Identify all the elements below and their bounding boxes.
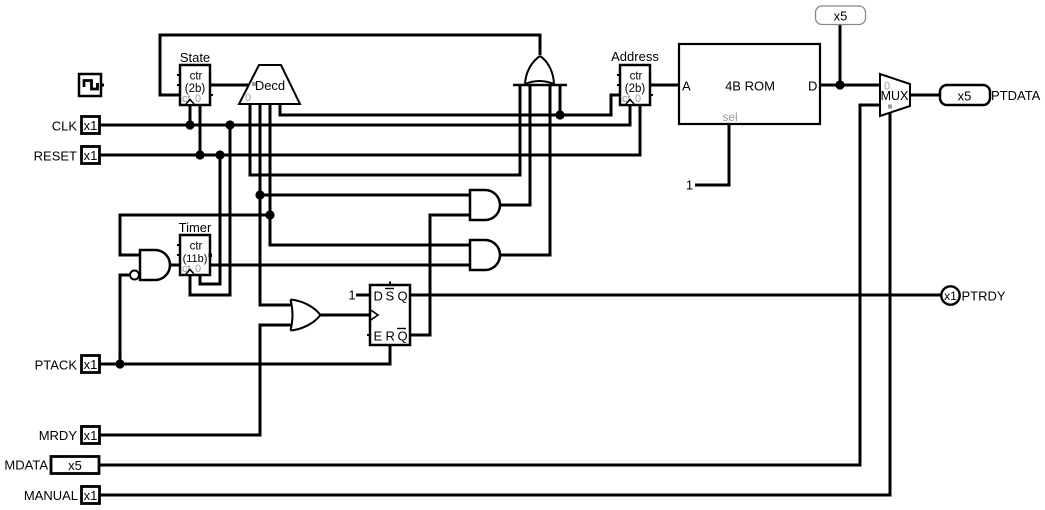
svg-text:0: 0	[195, 93, 201, 105]
svg-text:A: A	[682, 79, 691, 94]
svg-text:Q: Q	[398, 329, 408, 344]
svg-text:ctr: ctr	[190, 71, 203, 83]
svg-text:ctr: ctr	[190, 241, 203, 253]
svg-text:sel: sel	[722, 110, 737, 124]
svg-text:0: 0	[245, 92, 251, 104]
svg-text:x1: x1	[84, 118, 98, 133]
svg-text:State: State	[180, 50, 210, 65]
svg-text:1: 1	[686, 178, 693, 193]
svg-text:Q: Q	[398, 289, 408, 304]
svg-text:MDATA: MDATA	[4, 458, 48, 473]
svg-text:Address: Address	[611, 49, 659, 64]
svg-text:x5: x5	[68, 458, 82, 473]
svg-text:0: 0	[635, 93, 641, 105]
svg-text:RESET: RESET	[34, 149, 77, 164]
svg-text:D: D	[374, 289, 383, 304]
svg-text:0: 0	[195, 263, 201, 275]
svg-text:E: E	[374, 329, 383, 344]
svg-text:x1: x1	[84, 357, 98, 372]
svg-text:ctr: ctr	[630, 71, 643, 83]
svg-text:PTACK: PTACK	[35, 358, 78, 373]
svg-text:CLK: CLK	[52, 119, 78, 134]
svg-text:MRDY: MRDY	[39, 428, 78, 443]
svg-text:PTRDY: PTRDY	[962, 289, 1006, 304]
svg-text:1: 1	[348, 288, 355, 303]
svg-text:x5: x5	[834, 8, 848, 23]
svg-text:S: S	[386, 289, 395, 304]
svg-text:MUX: MUX	[881, 89, 909, 103]
svg-text:Timer: Timer	[179, 220, 212, 235]
svg-text:4B ROM: 4B ROM	[725, 79, 775, 94]
svg-text:Decd: Decd	[255, 78, 285, 93]
svg-text:PTDATA: PTDATA	[991, 88, 1041, 103]
svg-text:D: D	[808, 79, 817, 94]
svg-text:x5: x5	[958, 88, 972, 103]
svg-text:MANUAL: MANUAL	[24, 488, 78, 503]
svg-text:R: R	[386, 329, 395, 344]
svg-text:x1: x1	[84, 148, 98, 163]
svg-text:x1: x1	[84, 488, 98, 503]
svg-text:x1: x1	[84, 428, 98, 443]
svg-text:x1: x1	[944, 289, 957, 303]
